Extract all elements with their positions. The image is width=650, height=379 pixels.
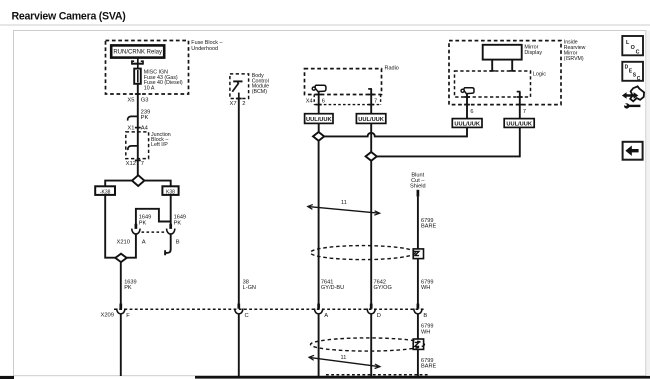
- wire radio pin6: [318, 92, 320, 114]
- wire X210 A down to splice S2: [127, 234, 136, 258]
- wire label 7641 GY/D-BU: [321, 279, 344, 291]
- svg-text:X1: X1: [127, 125, 134, 131]
- svg-text:Radio: Radio: [385, 65, 399, 71]
- svg-text:Underhood: Underhood: [191, 46, 218, 52]
- svg-text:-K38: -K38: [100, 189, 111, 195]
- svg-text:6: 6: [322, 99, 325, 105]
- branch wires to K38 boxes: [105, 181, 171, 187]
- wire shield to X209 B: [417, 259, 419, 305]
- BCM label: [252, 73, 269, 95]
- svg-text:C: C: [636, 49, 640, 55]
- connector label X5 G3: [127, 98, 148, 104]
- svg-text:B: B: [176, 239, 180, 245]
- bottom cut dashed connector: [326, 374, 430, 376]
- svg-text:Left I/P: Left I/P: [151, 142, 168, 148]
- twisted pair marker 11 lower: [309, 355, 380, 369]
- wire to junction block: [137, 114, 139, 176]
- pin tick X12/7: [135, 159, 141, 161]
- BCM box: [230, 74, 249, 99]
- svg-text:Shield: Shield: [410, 184, 426, 190]
- ISRVM label: [564, 40, 586, 62]
- route/trace icon: [622, 86, 644, 108]
- bottom-left black block: [0, 376, 14, 379]
- svg-text:Display: Display: [524, 50, 542, 56]
- wire F to bottom: [120, 314, 122, 376]
- inline connector UUL/UUK (radio 7): [356, 114, 385, 124]
- wire label 239 PK: [141, 110, 151, 121]
- logic box: [455, 71, 531, 97]
- connector X4 bracket: [314, 95, 380, 105]
- svg-text:X209: X209: [100, 312, 114, 318]
- svg-text:7: 7: [141, 161, 144, 167]
- wire label 1639 PK: [124, 279, 136, 291]
- svg-text:(ISRVM): (ISRVM): [564, 56, 584, 62]
- svg-text:(BCM): (BCM): [252, 89, 268, 95]
- fuse MISC IGN: [134, 69, 183, 92]
- scrollbar strip: [647, 31, 650, 376]
- pin tick X1/A4: [135, 127, 141, 129]
- svg-text:K38: K38: [166, 189, 175, 195]
- LOC button: [622, 36, 643, 55]
- svg-text:G3: G3: [141, 98, 149, 104]
- fuse block underhood box: [106, 41, 189, 95]
- wire 38 L-GN down to X209 C: [238, 99, 240, 305]
- connector label X12 7: [126, 161, 144, 167]
- wire A to bottom: [318, 314, 320, 376]
- svg-text:GY/OG: GY/OG: [374, 285, 392, 291]
- svg-text:UUL/UUK: UUL/UUK: [358, 117, 384, 123]
- svg-text:UUL/UUK: UUL/UUK: [454, 122, 480, 128]
- X209 pin A: [314, 304, 328, 319]
- box -K38: [95, 186, 115, 195]
- connector label X7 2: [230, 101, 246, 107]
- mirror display box: [483, 45, 543, 60]
- svg-text:X210: X210: [116, 239, 130, 245]
- header separator: [0, 24, 650, 26]
- svg-text:A: A: [324, 313, 328, 319]
- svg-text:D: D: [377, 313, 381, 319]
- DESC button: [622, 62, 643, 82]
- wire S3 horizontal with hop: [324, 133, 467, 137]
- wire S3 down to X209 A: [318, 141, 320, 305]
- pin ticks ISRVM: [464, 97, 523, 105]
- svg-text:C: C: [637, 76, 641, 82]
- wire label 6799 BARE (upper): [421, 218, 437, 229]
- wire radio pin7: [370, 89, 372, 114]
- svg-text:10 A: 10 A: [144, 86, 155, 92]
- connector labels X210 A B: [116, 239, 179, 245]
- svg-text:O: O: [631, 45, 635, 51]
- svg-text:UUL/UUK: UUL/UUK: [306, 117, 332, 123]
- connector labels 6 7: [470, 109, 526, 115]
- wire B below X209: [417, 314, 419, 376]
- X209 pin D: [367, 304, 381, 319]
- svg-text:WH: WH: [421, 330, 430, 336]
- svg-text:L-GN: L-GN: [243, 285, 256, 291]
- junction block label: [151, 132, 171, 148]
- twisted pair marker 11 upper: [308, 200, 380, 215]
- wire K38 down to X210 B: [170, 195, 172, 225]
- mirror display stubs: [490, 60, 515, 72]
- svg-text:PK: PK: [124, 285, 132, 291]
- svg-text:X4: X4: [306, 98, 313, 104]
- svg-text:BARE: BARE: [421, 224, 437, 230]
- wire label 1649 PK (left): [139, 215, 151, 227]
- back button: [623, 142, 643, 160]
- svg-text:6: 6: [470, 109, 473, 115]
- wire label 6799 WH (above X209): [421, 279, 433, 291]
- svg-text:11: 11: [341, 200, 347, 206]
- wire label 7642 GY/OG: [374, 279, 392, 291]
- X209 pin F: [117, 304, 131, 319]
- svg-text:X5: X5: [127, 98, 134, 104]
- svg-text:A: A: [142, 239, 146, 245]
- svg-text:B: B: [423, 313, 427, 319]
- svg-text:BARE: BARE: [421, 363, 437, 369]
- wire label 1649 PK (right): [174, 215, 186, 227]
- wire label 6799 BARE (bottom): [421, 358, 437, 370]
- svg-text:RUN/CRNK Relay: RUN/CRNK Relay: [113, 50, 162, 56]
- wire to splice diamond S3: [318, 123, 320, 132]
- connector X210 pin A: [132, 224, 140, 234]
- relay RUN/CRNK box: [111, 45, 164, 57]
- svg-text:Logic: Logic: [533, 72, 546, 78]
- radio pin 7 stub: [368, 88, 372, 90]
- svg-text:PK: PK: [139, 220, 147, 226]
- svg-text:Rearview Camera (SVA): Rearview Camera (SVA): [12, 11, 126, 23]
- wire -K38 down to splice S2: [105, 195, 115, 258]
- wire C to bottom: [238, 314, 240, 376]
- X209 pin C: [235, 304, 249, 319]
- radio camera icon: [312, 85, 326, 91]
- box K38: [162, 186, 178, 195]
- wire isrvm6 to corner: [466, 127, 468, 137]
- pin tick X5/G3: [135, 93, 141, 95]
- bottom black bus: [195, 376, 650, 379]
- BCM switch symbol: [232, 81, 242, 98]
- connector label X1 A4: [127, 125, 148, 131]
- shield tie box 2: [413, 339, 423, 349]
- wire S4 down to X209 D: [370, 161, 372, 305]
- svg-text:A4: A4: [141, 125, 149, 131]
- wire ISRVM pin6: [466, 94, 468, 119]
- svg-text:7: 7: [374, 99, 377, 105]
- wire fuse to X5/G3: [137, 84, 139, 114]
- pin tick X7/2: [236, 98, 242, 100]
- twisted pair ellipse lower: [311, 338, 425, 351]
- svg-text:WH: WH: [421, 285, 430, 291]
- wire D to bottom: [370, 314, 372, 376]
- splice diamond S4: [366, 152, 377, 161]
- X210 A-B dashed link: [142, 231, 166, 233]
- svg-text:11: 11: [341, 355, 347, 361]
- wire isrvm7 to corner: [519, 127, 521, 157]
- svg-text:PK: PK: [174, 220, 182, 226]
- relay contact symbol: [132, 58, 143, 69]
- ISRVM box: [449, 41, 561, 105]
- connector X209 dashed line: [114, 308, 425, 310]
- splice diamond S3: [313, 132, 324, 141]
- svg-text:UUL/UUK: UUL/UUK: [506, 122, 532, 128]
- pin ticks radio: [316, 95, 374, 105]
- shield tie box 1: [413, 249, 423, 259]
- bracket wire to X210 A: [136, 209, 171, 225]
- blunt cut shield label: [410, 173, 426, 190]
- logic pin 7 stub: [517, 91, 521, 93]
- svg-text:C: C: [245, 313, 249, 319]
- svg-text:GY/D-BU: GY/D-BU: [321, 285, 344, 291]
- inline connector UUL/UUK (radio 6): [305, 114, 333, 124]
- wire X210 B curl end: [165, 234, 171, 255]
- inline connector UUL/UUK (isrvm 6): [452, 119, 482, 128]
- svg-text:X7: X7: [230, 101, 237, 107]
- svg-text:PK: PK: [141, 115, 149, 121]
- wire S4 horizontal to ISRVM 7: [377, 155, 520, 157]
- fuse block label: [191, 40, 222, 52]
- junction block hook: [128, 146, 138, 150]
- radio box: [305, 69, 382, 95]
- inline connector hook (239): [128, 116, 138, 120]
- svg-text:7: 7: [523, 109, 526, 115]
- inline connector UUL/UUK (isrvm 7): [504, 119, 534, 128]
- wire ISRVM pin7: [519, 92, 521, 119]
- svg-text:2: 2: [242, 101, 245, 107]
- connector labels X4 6 7: [306, 98, 377, 104]
- wire to splice diamond S4: [370, 123, 372, 152]
- logic camera icon: [461, 88, 474, 94]
- svg-text:X12: X12: [126, 161, 136, 167]
- splice diamond S1: [132, 175, 144, 186]
- blunt cut stub: [417, 190, 420, 197]
- connector X210 pin B: [167, 224, 175, 234]
- svg-text:F: F: [126, 313, 130, 319]
- wire 1639 down to X209 F: [120, 262, 122, 304]
- twisted pair ellipse upper: [310, 246, 415, 260]
- wire shield upper: [417, 197, 419, 250]
- X209 pin B: [414, 304, 428, 319]
- wire label 6799 WH (below X209): [421, 324, 433, 336]
- junction block box: [126, 132, 149, 159]
- splice diamond S2: [115, 254, 126, 262]
- wire label 38 L-GN: [243, 279, 256, 291]
